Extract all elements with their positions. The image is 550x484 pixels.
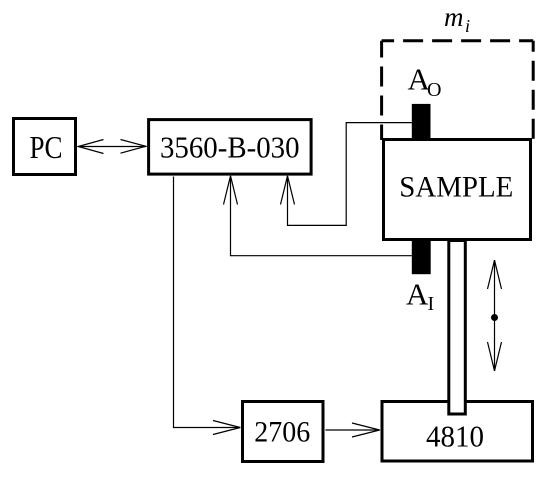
shaker rod [449, 241, 466, 415]
box SAMPLE [384, 140, 531, 240]
svg-text:PC: PC [30, 129, 63, 165]
svg-text:m: m [444, 2, 464, 32]
dot on excitation arrow [491, 314, 498, 321]
svg-text:I: I [428, 293, 435, 315]
arrowhead into 2706 [213, 421, 240, 435]
svg-text:4810: 4810 [426, 418, 484, 453]
arrowhead into 4810 [352, 423, 380, 437]
label m_i [444, 2, 470, 36]
box PC [14, 119, 76, 175]
svg-text:i: i [465, 16, 470, 36]
box 2706 amplifier [243, 402, 324, 462]
svg-text:SAMPLE: SAMPLE [399, 171, 513, 204]
svg-text:3560-B-030: 3560-B-030 [160, 129, 300, 164]
label A_O [408, 62, 442, 102]
accelerometer A_O (black) [412, 104, 431, 140]
wire A_O to analyzer input [288, 123, 412, 226]
dashed mass boundary box m_i [382, 41, 534, 140]
svg-text:A: A [406, 276, 429, 311]
svg-text:2706: 2706 [254, 416, 310, 449]
accelerometer A_I (black) [412, 239, 431, 274]
label A_I [406, 276, 434, 315]
arrowhead into 3560 (A_O input) [281, 176, 295, 205]
box 3560-B-030 analyzer [149, 120, 312, 175]
wire 3560 output to 2706 [174, 177, 241, 428]
excitation double arrow with dot [488, 260, 502, 371]
wire A_I to analyzer input [231, 177, 412, 256]
wire 2706 to 4810 [326, 429, 380, 431]
arrowhead into 3560 (A_I input) [224, 176, 238, 205]
double arrow PC to 3560 [78, 140, 146, 154]
svg-text:O: O [427, 79, 441, 101]
box 4810 shaker [382, 402, 533, 462]
